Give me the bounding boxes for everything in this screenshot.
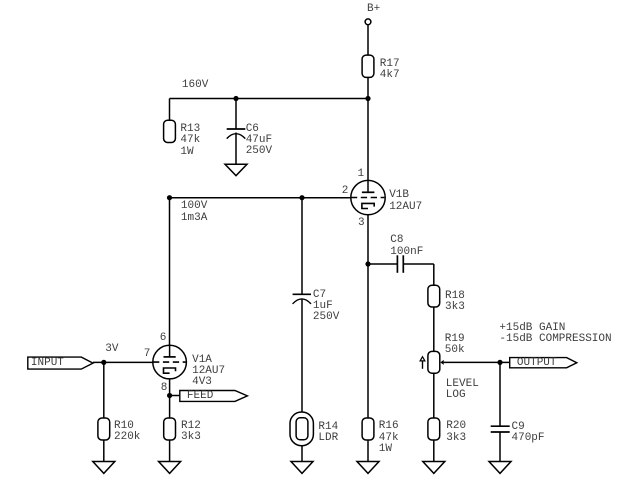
node junction top rail / R17: [365, 96, 370, 101]
capacitor C6: [227, 129, 246, 139]
wire C9 to ground: [499, 432, 501, 462]
label V1B 12AU7: [389, 190, 422, 212]
potentiometer R19: [420, 351, 444, 373]
label OUTPUT text: [517, 358, 557, 369]
wire top rail 160V: [170, 98, 369, 100]
wire R17 to top rail junction: [367, 76, 369, 99]
wire C6 top lead: [235, 99, 237, 130]
triode V1A: [153, 345, 187, 379]
label C8 100nF: [390, 235, 423, 257]
label 160V net: [182, 80, 208, 91]
label C7 1uF 250V: [313, 290, 339, 324]
port FEED flag: [180, 391, 248, 402]
wire V1B cathode to R16: [367, 209, 369, 419]
label R19 50k: [445, 334, 465, 356]
resistor R10: [98, 418, 110, 440]
wire C8 to corner: [403, 263, 434, 265]
wire R18 to R19: [433, 307, 435, 352]
node junction mid rail / C7: [299, 195, 304, 200]
pin 7 of V1A: [144, 349, 151, 360]
wire cathode junction to C8: [368, 263, 397, 265]
label R14 LDR: [318, 422, 338, 444]
label R20 3k3: [446, 421, 466, 443]
node junction cathode V1A / FEED: [167, 393, 172, 398]
port INPUT flag: [28, 357, 93, 369]
label INPUT text: [31, 358, 64, 369]
wire R10 to ground: [103, 440, 105, 462]
pin 1 of V1B: [358, 169, 365, 180]
ground below R14: [291, 462, 313, 474]
capacitor C8: [397, 255, 403, 272]
label R13 47k 1W: [180, 124, 200, 158]
ground below R20: [423, 462, 445, 474]
capacitor C7: [293, 294, 311, 304]
label gain compression note: [499, 323, 611, 345]
wire R19 to R20: [433, 373, 435, 418]
wire corner down to R18: [433, 264, 435, 285]
wire LDR to ground: [301, 446, 303, 462]
wire C9 top lead: [499, 362, 501, 426]
resistor R13: [164, 120, 176, 142]
wire B+ lead to R17: [367, 25, 369, 55]
resistor R17: [362, 55, 374, 77]
wire C7 top lead: [301, 198, 303, 295]
ground below C9: [489, 462, 511, 474]
wire R19 wiper to output junction: [444, 361, 500, 363]
resistor R20: [428, 418, 440, 440]
triode V1B: [351, 180, 385, 214]
pin 8 of V1A: [161, 383, 168, 394]
label 100V 1m3A net: [181, 201, 207, 223]
node junction cathode / C8: [365, 261, 370, 266]
LDR R14: [290, 412, 313, 446]
wire FEED tap: [170, 395, 180, 397]
label 3V net: [105, 344, 118, 355]
terminal B+: [365, 19, 371, 25]
label B+: [367, 4, 380, 15]
ground below R16: [357, 462, 379, 474]
node junction mid rail / R13: [167, 195, 172, 200]
pin 2 of V1B: [342, 186, 349, 197]
label R10 220k: [114, 421, 140, 443]
wire V1B plate lead: [367, 99, 369, 193]
resistor R12: [164, 418, 176, 440]
wire output junction to OUTPUT flag: [500, 361, 510, 363]
node junction output / C9: [497, 360, 502, 365]
label R18 3k3: [445, 291, 465, 313]
label C6 47uF 250V: [246, 124, 272, 158]
label FEED text: [187, 391, 213, 402]
resistor R16: [362, 418, 374, 440]
pin 3 of V1B: [358, 218, 365, 229]
label R17 4k7: [380, 59, 400, 81]
wire C6 to ground: [235, 133, 237, 165]
wire mid rail 100V to V1B grid: [170, 197, 351, 199]
wire V1A plate lead: [169, 198, 171, 357]
wire R12 to ground: [169, 440, 171, 462]
wire C7 to LDR R14: [301, 299, 303, 412]
wire V1A cathode to R12: [169, 373, 171, 418]
node junction input / R10: [101, 360, 106, 365]
port OUTPUT flag: [510, 358, 577, 368]
ground below C6: [225, 164, 247, 175]
wire R20 to ground: [433, 440, 435, 462]
label V1A 12AU7 4V3: [192, 355, 225, 389]
wire R16 to ground: [367, 440, 369, 462]
pin 6 of V1A: [160, 333, 167, 344]
wire INPUT to V1A grid: [93, 361, 153, 363]
ground below R10: [93, 462, 115, 474]
label LEVEL LOG: [446, 379, 479, 401]
node junction top rail / C6: [233, 96, 238, 101]
wire R10 top lead: [103, 362, 105, 418]
capacitor C9: [491, 426, 510, 432]
wire R13 top lead: [169, 99, 171, 121]
resistor R18: [428, 285, 440, 307]
label R12 3k3: [181, 421, 201, 443]
label C9 470pF: [512, 422, 545, 444]
ground below R12: [159, 462, 181, 474]
label R16 47k 1W: [379, 421, 399, 455]
